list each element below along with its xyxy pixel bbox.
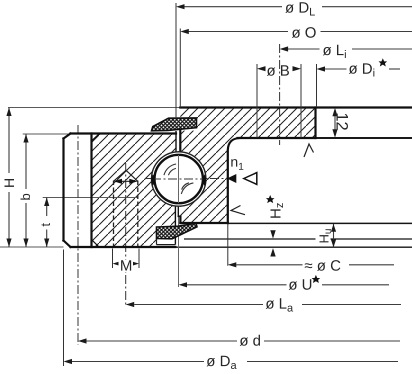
M hole thread arrow line	[116, 180, 135, 182]
svg-text:t: t	[39, 223, 53, 227]
outer ring outline	[64, 134, 177, 248]
surface symbol on step	[304, 144, 314, 157]
extension line for C	[227, 224, 229, 266]
ball centerline through	[152, 178, 205, 180]
inner ring hatched section	[151, 108, 315, 224]
dimension ø D_L	[184, 6, 412, 8]
extension line for D_L	[175, 3, 177, 119]
extension line for D_a	[63, 250, 65, 367]
gear pitch centerline	[77, 125, 79, 345]
lower seal	[157, 223, 198, 239]
n1 open triangle	[244, 173, 257, 185]
outer ring gap face below ball	[174, 206, 176, 244]
svg-text:ø d: ø d	[239, 333, 261, 350]
extension lines for M	[112, 249, 114, 269]
dimension ø U*	[187, 284, 389, 286]
inner ring bottom plane line	[228, 222, 412, 224]
svg-text:H: H	[1, 178, 17, 188]
dimension ≈ ø C	[236, 264, 394, 266]
seal contact plane line Hz	[184, 238, 412, 240]
H dimension top extension line	[8, 107, 180, 109]
dimension ø O	[188, 31, 412, 33]
extension line for B left	[256, 64, 258, 108]
dimension ø D_i*	[325, 68, 400, 70]
svg-text:ø O: ø O	[291, 25, 316, 42]
M hole drill cone	[114, 170, 138, 181]
ball horizontal centerline	[146, 178, 228, 180]
svg-text:ø B: ø B	[266, 63, 289, 80]
raceway contact crescent right	[203, 175, 206, 185]
seal groove floor	[157, 244, 176, 246]
dimension ø D_a	[72, 361, 398, 363]
inner ring outline	[178, 108, 412, 224]
raceway contact crescent left	[152, 175, 155, 185]
extension line for B right	[300, 64, 302, 108]
svg-text:M: M	[120, 258, 133, 275]
M tapped hole hidden lines	[114, 181, 138, 248]
ball shading arcs upper-left	[164, 164, 193, 194]
Hu dimension	[333, 224, 335, 247]
extension line for D_i	[316, 64, 318, 107]
dimension ø L_i	[288, 48, 412, 50]
n1 filled arrow	[227, 174, 236, 183]
extension line for O	[179, 29, 181, 108]
svg-text:ø Li: ø Li	[322, 42, 346, 61]
dimension ø d	[87, 340, 401, 342]
svg-text:b: b	[18, 193, 33, 200]
seal groove wall	[156, 239, 158, 245]
support step plane line	[316, 137, 412, 139]
t dimension top extension line	[43, 197, 138, 199]
svg-text:12: 12	[333, 112, 351, 130]
ball vertical extension line for U	[178, 151, 180, 287]
surface symbol on face	[231, 206, 245, 215]
outer ring hatched section	[92, 134, 206, 248]
Hz* dimension arrows	[270, 230, 275, 238]
ball raceway pocket	[152, 152, 206, 206]
b dimension top extension line	[23, 133, 71, 135]
dimension ø L_a	[134, 304, 401, 306]
outer ring gap face above ball	[175, 131, 177, 152]
dimension H	[8, 108, 10, 248]
star for D_i	[379, 58, 388, 66]
dimension 12	[334, 111, 336, 134]
M hole centerline	[125, 163, 127, 307]
svg-text:≈ ø C: ≈ ø C	[304, 258, 341, 275]
dimension M	[113, 261, 122, 266]
ball	[155, 155, 203, 203]
upper seal	[152, 118, 197, 131]
bottom plane extension line	[0, 246, 64, 248]
dimension b	[25, 134, 27, 247]
svg-text:ø U: ø U	[288, 277, 312, 294]
inner ring bolt centerline	[279, 44, 281, 145]
svg-text:ø Di: ø Di	[348, 61, 375, 80]
dimension t	[46, 198, 48, 248]
dimension ø B	[257, 66, 266, 71]
star for Hz	[266, 195, 275, 203]
